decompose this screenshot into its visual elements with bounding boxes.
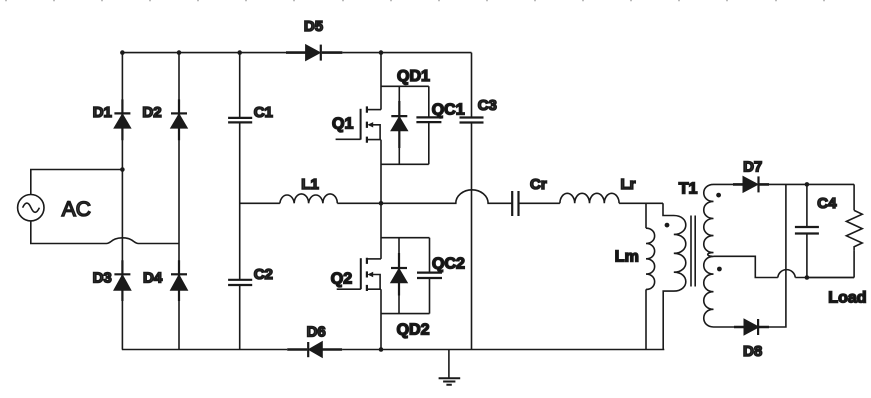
svg-text:D3: D3	[93, 270, 112, 287]
wire QD2/QC2 loop bottom	[381, 313, 430, 315]
wire C1-C2 column	[239, 53, 241, 350]
wire Lr to transformer	[619, 202, 663, 204]
svg-text:QC1: QC1	[432, 102, 465, 119]
thick diode leads D1-D4	[122, 99, 179, 301]
capacitor C1	[228, 118, 252, 123]
capacitor QC1	[416, 86, 441, 164]
wire top rail corner to C3	[471, 53, 473, 350]
wire Lm top lead	[645, 203, 647, 228]
capacitor C2	[228, 280, 252, 285]
wire D8 riser to output top	[769, 184, 786, 327]
inductor L1	[280, 194, 337, 203]
svg-text:C1: C1	[254, 104, 273, 121]
wire QD2/QC2 loop top	[381, 237, 430, 239]
svg-text:C2: C2	[254, 266, 273, 283]
wire D6 thick leads	[287, 348, 342, 351]
mosfet Q2	[337, 258, 381, 291]
ground	[439, 350, 461, 385]
wire D7 to output top	[769, 183, 854, 185]
svg-text:Lr: Lr	[621, 176, 636, 193]
svg-text:D5: D5	[304, 18, 323, 35]
capacitor QC2	[417, 238, 442, 314]
wire load bottom	[807, 277, 854, 279]
top rail	[122, 52, 471, 54]
wire half-bridge column upper	[380, 53, 382, 204]
wire D8 thick leads	[734, 326, 769, 329]
transformer core	[691, 216, 695, 287]
transformer secondary winding upper	[704, 184, 714, 256]
diode D4	[171, 274, 187, 290]
wire AC top to bridge node A	[31, 170, 123, 195]
wire mid rail with hop over C3 column	[381, 190, 512, 204]
svg-text:Cr: Cr	[530, 176, 547, 193]
secondary lower polarity dot	[717, 267, 722, 272]
resistor Load	[846, 184, 862, 277]
wire QD1/QC1 loop top	[381, 85, 429, 87]
svg-text:D8: D8	[743, 343, 762, 360]
svg-text:QD1: QD1	[397, 68, 430, 85]
svg-text:QC2: QC2	[432, 256, 465, 273]
svg-text:Load: Load	[828, 290, 866, 307]
wire bridge column 2	[178, 53, 180, 350]
svg-text:Lm: Lm	[615, 249, 639, 266]
wire Lm bottom lead	[645, 289, 647, 349]
diode QD2	[391, 238, 407, 314]
svg-text:C4: C4	[817, 195, 837, 212]
svg-text:D7: D7	[743, 159, 762, 176]
mosfet Q1	[336, 106, 381, 142]
wire center tap to load bottom	[795, 277, 854, 279]
svg-text:Q1: Q1	[332, 116, 353, 133]
transformer secondary winding lower	[704, 256, 714, 327]
diode D1	[114, 113, 130, 127]
capacitor Cr	[512, 191, 518, 216]
wire Cr to Lr	[519, 202, 560, 204]
wire bridge column 1	[121, 53, 123, 350]
diode D6	[308, 342, 322, 357]
svg-text:L1: L1	[301, 176, 319, 193]
svg-text:Q2: Q2	[331, 271, 352, 288]
wire QD1/QC1 loop bottom	[381, 163, 429, 165]
top edge tick marks	[6, 0, 824, 1]
svg-text:QD2: QD2	[397, 321, 430, 338]
diode QD1	[391, 86, 407, 164]
wire mid rail left	[240, 202, 280, 204]
diode D2	[171, 113, 187, 127]
svg-text:T1: T1	[679, 181, 698, 198]
wire top rail thick leads of D5	[286, 51, 342, 54]
primary polarity dot	[665, 223, 670, 228]
svg-text:D2: D2	[142, 104, 161, 121]
capacitor C4	[795, 184, 819, 277]
diode D5	[306, 45, 321, 61]
diode D3	[114, 274, 130, 290]
wire center tap step	[714, 256, 778, 277]
transformer T1 primary winding	[663, 203, 686, 349]
svg-text:D6: D6	[307, 324, 326, 341]
secondary upper polarity dot	[716, 193, 721, 198]
diode D8	[744, 319, 758, 335]
svg-text:AC: AC	[62, 198, 91, 221]
wire hop over D8 riser	[778, 270, 796, 278]
wire D7 thick leads	[733, 183, 769, 186]
inductor Lr	[560, 193, 619, 203]
svg-text:D1: D1	[93, 104, 112, 121]
wire mid rail to half-bridge node	[337, 202, 381, 204]
svg-text:D4: D4	[143, 270, 163, 287]
bottom rail	[122, 349, 664, 351]
wire secondary top lead	[714, 183, 734, 185]
wire secondary bottom lead	[714, 326, 735, 328]
AC source V1	[18, 195, 44, 221]
inductor Lm	[646, 228, 655, 289]
wire half-bridge column lower	[380, 203, 382, 349]
svg-text:C3: C3	[478, 97, 497, 114]
capacitor C3	[460, 118, 484, 123]
diode D7	[743, 176, 758, 192]
wire AC bottom with hop over column1	[31, 221, 179, 244]
